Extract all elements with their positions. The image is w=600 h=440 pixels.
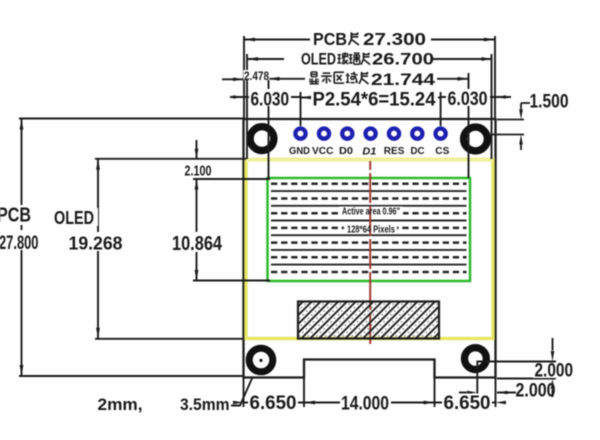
svg-text:6.030: 6.030	[448, 89, 488, 110]
svg-text:6.650: 6.650	[250, 393, 297, 414]
display pixel rows (dashed)	[271, 184, 467, 272]
label OLED glass width 26.700	[284, 50, 434, 69]
label PCB	[0, 205, 32, 227]
PCB outline with bottom notch	[244, 119, 496, 378]
dimension line PCB width	[244, 39, 495, 41]
label 2.000 vertical	[533, 361, 580, 382]
OLED glass outline (yellow)	[246, 160, 493, 339]
svg-text:2.000: 2.000	[516, 381, 556, 402]
extension line display left	[268, 73, 270, 178]
pin D1	[366, 129, 376, 139]
svg-text:26.700: 26.700	[372, 51, 434, 69]
arrowheads for bottom dimensions	[233, 351, 554, 404]
extension line display top left	[193, 178, 270, 180]
mounting hole top-right	[464, 127, 488, 151]
label 27.800	[0, 230, 41, 254]
extension PCB bottom right	[497, 378, 556, 380]
extension line pin1	[300, 92, 302, 126]
svg-text:2mm,: 2mm,	[98, 395, 143, 414]
svg-text:27.800: 27.800	[0, 233, 39, 254]
extension line PCB top left	[19, 118, 244, 120]
extension line notch right	[434, 378, 436, 408]
svg-text:3.5mm: 3.5mm	[180, 395, 230, 414]
svg-text:D0: D0	[339, 145, 353, 157]
svg-text:2.100: 2.100	[185, 164, 212, 180]
OLED glass top edge (pale)	[246, 158, 493, 161]
svg-text:GND: GND	[289, 145, 310, 157]
connector outline	[298, 302, 439, 339]
dimension line 2.100 upper	[196, 140, 198, 159]
label 19.268	[67, 232, 124, 254]
extension line OLED glass right	[491, 54, 493, 159]
extension line OLED top left	[95, 158, 246, 160]
extension line PCB right top	[494, 36, 496, 119]
pin VCC	[319, 129, 329, 139]
dimension line bottom row	[244, 402, 496, 404]
dimension 2.478 stub	[222, 78, 244, 80]
svg-text:PCB: PCB	[313, 29, 347, 49]
extension line bottom left for 6.650	[243, 378, 245, 408]
arrowheads for 1.500 dimension	[519, 110, 523, 145]
svg-text:D1: D1	[362, 146, 376, 158]
pin RES	[389, 129, 399, 139]
label 2.100	[183, 163, 213, 180]
pin GND	[295, 129, 305, 139]
svg-text:P2.54*6=15.24: P2.54*6=15.24	[313, 90, 436, 111]
dimension line OLED glass width	[247, 58, 493, 60]
extension line display right	[468, 73, 470, 178]
svg-text:VCC: VCC	[312, 145, 334, 157]
svg-text:19.268: 19.268	[69, 233, 123, 254]
label 6.650 right	[442, 393, 492, 414]
svg-text:OLED: OLED	[301, 51, 336, 69]
extension line notch left	[303, 378, 305, 408]
leader 3.5mm	[231, 377, 253, 406]
display active area (green)	[268, 178, 471, 281]
label display width 21.744	[305, 70, 437, 89]
label 2.478	[244, 70, 270, 83]
svg-text:128*64 Pixels: 128*64 Pixels	[347, 225, 395, 236]
label 6.030 left	[249, 89, 291, 111]
svg-text:14.000: 14.000	[341, 394, 389, 415]
label 10.864	[171, 232, 224, 255]
dimension line PCB height	[21, 119, 23, 377]
label P2.54*6=15.24	[311, 90, 438, 111]
svg-text:2.478: 2.478	[244, 71, 270, 83]
arrowheads for left dimensions	[20, 119, 199, 377]
dimension line 10.864	[196, 179, 198, 281]
svg-text:1.500: 1.500	[530, 92, 569, 113]
label 6.030 right	[446, 89, 490, 110]
dimension 1.500 right	[492, 103, 530, 150]
svg-text:6.030: 6.030	[251, 90, 290, 111]
label OLED	[53, 208, 98, 228]
svg-text:CS: CS	[435, 145, 449, 157]
svg-text:OLED: OLED	[54, 208, 94, 228]
extension line display bottom left	[193, 280, 270, 282]
label 6.650 left	[248, 393, 298, 414]
pin D0	[342, 129, 352, 139]
label backgrounds	[339, 207, 403, 217]
svg-text:Active area 0.96": Active area 0.96"	[342, 207, 400, 218]
hole center dot bottom-left	[259, 359, 262, 362]
svg-text:DC: DC	[411, 145, 425, 157]
arrowheads for top dimensions	[233, 38, 506, 100]
extension line OLED glass left	[246, 54, 248, 159]
extension line PCB left top	[243, 36, 245, 119]
svg-text:10.864: 10.864	[172, 233, 223, 255]
pin CS	[436, 129, 446, 139]
pin DC	[412, 129, 422, 139]
dim horizontal 2.000	[459, 392, 467, 394]
extension line pin7	[440, 92, 442, 126]
svg-text:2.000: 2.000	[535, 361, 574, 382]
label 14.000	[340, 394, 391, 415]
pin labels GND VCC D0 D1 RES DC CS	[289, 145, 449, 158]
hole center vertical bottom right	[476, 362, 478, 403]
mounting hole top-left	[250, 127, 274, 151]
mounting hole bottom-right	[465, 348, 487, 370]
dimension line OLED height	[97, 159, 99, 339]
dimension line display width	[269, 78, 469, 80]
extension line PCB right bottom	[495, 378, 497, 408]
label PCB width 27.300	[310, 29, 431, 49]
dim vertical 2.000	[552, 338, 554, 351]
connector hatch lines	[247, 301, 537, 340]
extension line OLED bottom left	[95, 338, 244, 340]
dimension line pin row	[230, 96, 301, 98]
svg-text:21.744: 21.744	[371, 71, 436, 89]
extension line PCB bottom left	[19, 375, 244, 377]
red centerline	[369, 161, 371, 344]
svg-text:6.650: 6.650	[444, 393, 491, 414]
svg-text:RES: RES	[384, 145, 405, 157]
hole center line bottom right	[477, 361, 557, 363]
svg-text:27.300: 27.300	[363, 29, 426, 49]
svg-text:PCB: PCB	[0, 205, 31, 227]
mounting hole bottom-left	[249, 348, 273, 372]
